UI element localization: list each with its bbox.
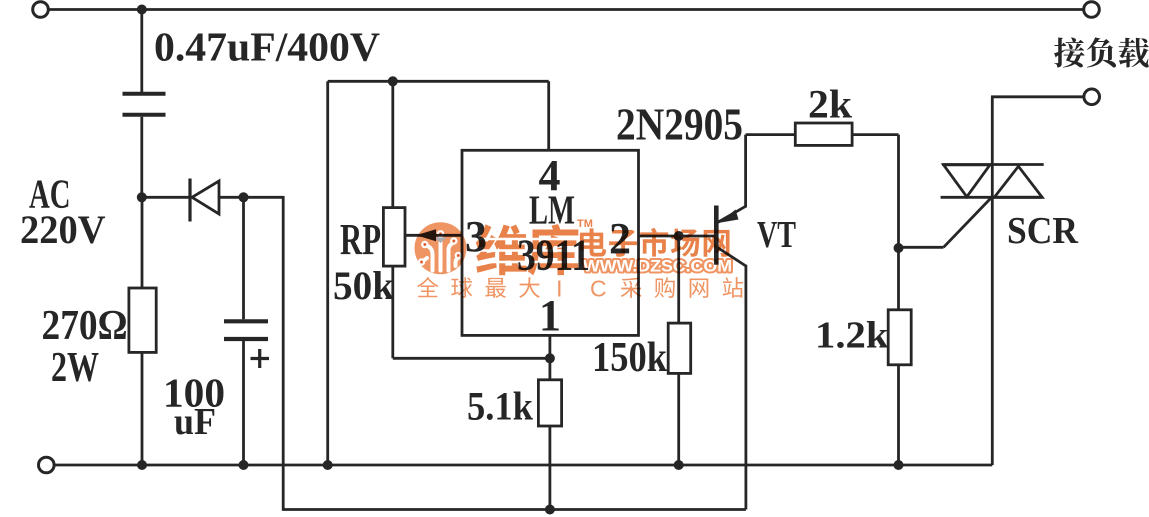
wire C1 top lead <box>140 10 143 93</box>
thyristor SCR <box>941 97 1044 465</box>
svg-text:TM: TM <box>577 218 593 230</box>
svg-text:I: I <box>556 276 562 302</box>
watermark logo circle <box>415 222 467 274</box>
wire RP top horizontal <box>328 80 549 83</box>
wire RP bottom lead <box>391 266 394 358</box>
wire lower return rail <box>283 508 746 511</box>
node 100uF junction <box>239 192 249 202</box>
label jie-fu-zai (connect load) <box>1054 38 1085 68</box>
wire C1 bottom lead <box>140 117 143 198</box>
node 150k bottom <box>674 460 684 470</box>
watermark logo traces <box>439 238 443 271</box>
diode VD <box>190 179 219 222</box>
node RP top junction <box>388 76 398 86</box>
node C2 bottom <box>239 460 249 470</box>
wire gate diagonal <box>944 199 991 248</box>
wire AC to diode <box>142 196 190 199</box>
op-amp U1 LM3911 box <box>462 150 639 335</box>
watermark quanqiu-zuida-IC <box>417 277 438 297</box>
capacitor C1 0.47uF/400V <box>123 94 166 115</box>
node R1 bottom <box>137 460 147 470</box>
potentiometer RP 50k <box>383 208 405 267</box>
svg-text:WWW.DZSC.COM: WWW.DZSC.COM <box>583 258 732 276</box>
transistor VT 2N2905 <box>714 135 746 510</box>
wire bottom rail <box>55 464 993 467</box>
wire RP loop left vertical <box>326 81 329 465</box>
watermark dianzi-shichang-wang <box>580 228 606 256</box>
wire diode node down to lower rail <box>282 196 285 511</box>
svg-text:C: C <box>590 276 607 302</box>
node 5.1k bottom junction <box>545 505 555 515</box>
terminal bottom-left <box>39 457 55 473</box>
watermark wei-ku big characters <box>476 224 527 275</box>
wire RP wiper to pin 3 <box>405 234 462 237</box>
node RP loop bottom <box>323 460 333 470</box>
node AC junction <box>137 192 147 202</box>
node top-rail junction <box>137 5 147 15</box>
wire pin 4 lead <box>547 81 550 150</box>
resistor R3 150k <box>677 236 680 323</box>
terminal top-left <box>33 2 49 18</box>
wire pin 1 lead <box>549 335 552 379</box>
wire SCR to load terminal <box>991 95 1084 98</box>
resistor R1 270 ohm <box>129 197 156 465</box>
node gate junction <box>894 243 904 253</box>
resistor R2 5.1k <box>538 380 561 426</box>
resistor R4 2k <box>746 133 796 136</box>
terminal load <box>1084 89 1100 105</box>
wire diode to corner <box>219 196 283 199</box>
node pin1 junction <box>545 353 555 363</box>
resistor R5 1.2k <box>897 248 900 310</box>
node 1.2k bottom <box>894 460 904 470</box>
node 150k top junction <box>674 231 684 241</box>
wire 2k to gate node <box>897 135 900 248</box>
label C2 plus <box>251 357 270 360</box>
wire gate horizontal <box>897 246 944 249</box>
capacitor C2 100uF <box>224 197 268 465</box>
wire RP top lead <box>391 81 394 207</box>
terminal top-right <box>1084 2 1100 18</box>
wire pin 2 lead <box>639 235 715 238</box>
wire top rail <box>49 8 1084 11</box>
